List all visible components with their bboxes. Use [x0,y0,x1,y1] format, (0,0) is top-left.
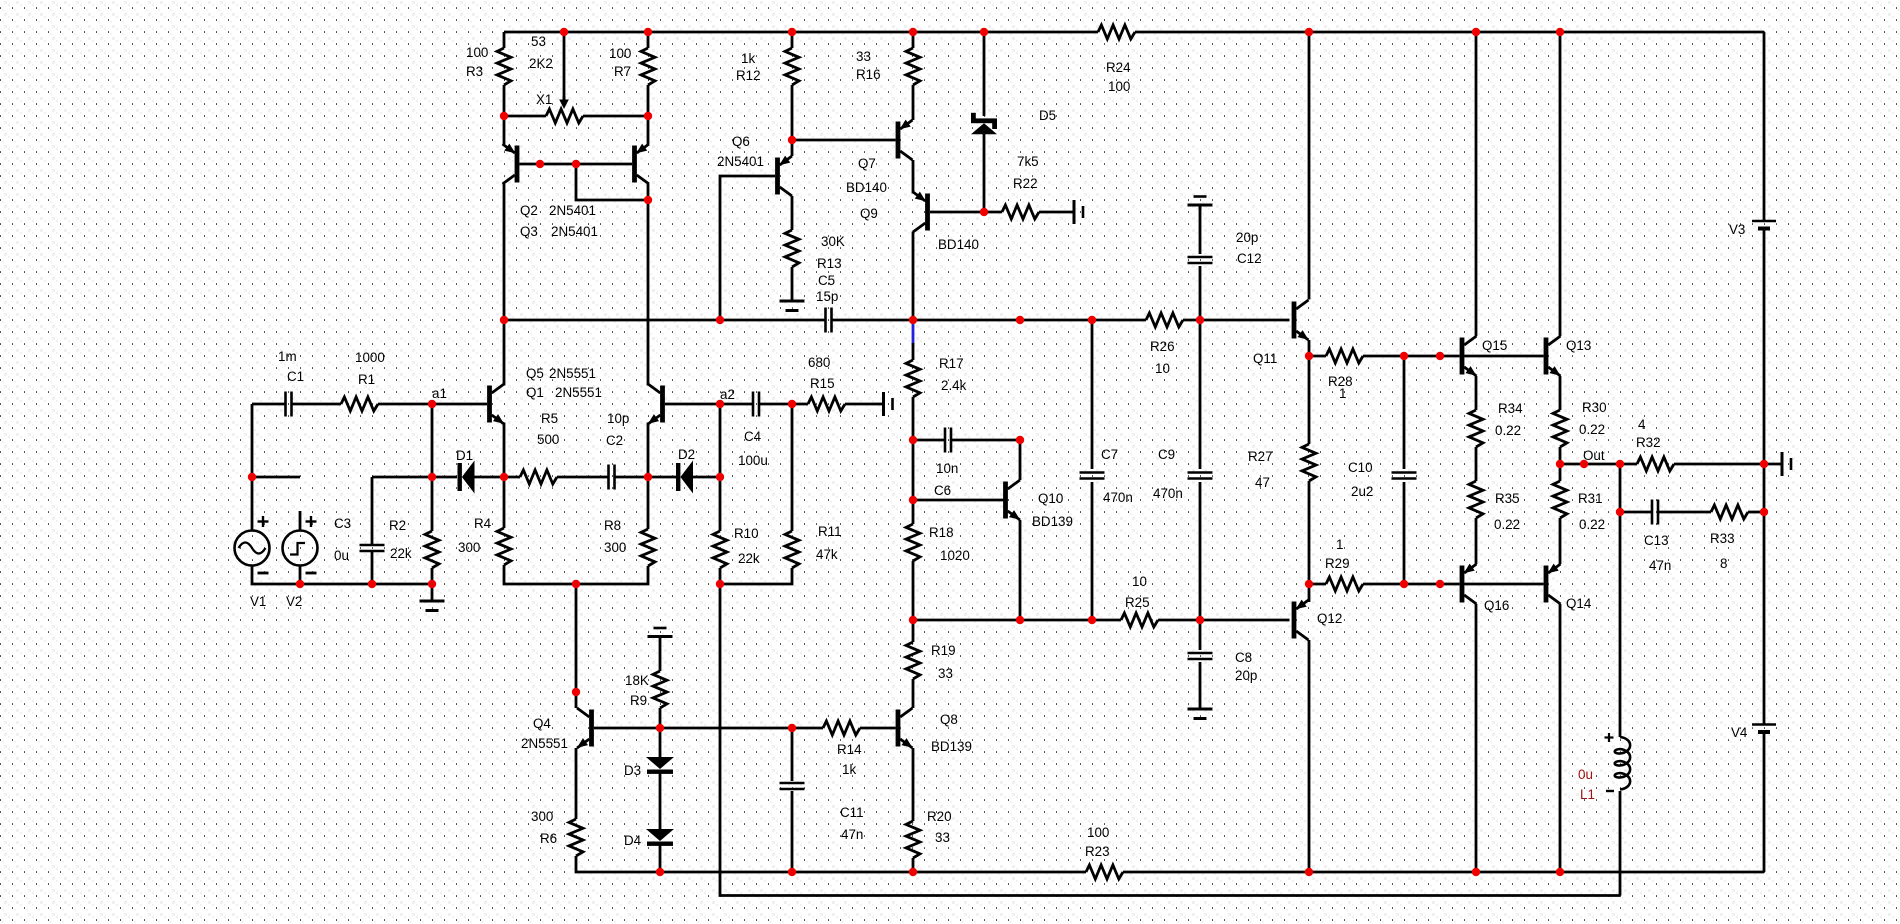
svg-text:2N5401: 2N5401 [549,203,596,218]
svg-text:C2: C2 [606,433,623,448]
label Q3 [520,224,538,239]
svg-text:2N5551: 2N5551 [549,366,596,381]
wire R27 top lead [1308,356,1311,444]
source V1 sine [235,516,270,573]
label Q13 [1566,338,1591,353]
svg-text:20p: 20p [1235,668,1257,683]
wire Q7 collector to Q9 emitter [912,160,915,194]
label Q4 [533,716,551,731]
label C5 [818,273,835,288]
wire Q7 base wire [792,139,896,142]
wire V1 feed [251,477,254,531]
svg-text:C6: C6 [934,483,951,498]
label Q2 [520,203,538,218]
wire R3 top lead [503,32,506,48]
wire C1 to R1 [292,403,341,406]
wire a2 down [719,404,722,477]
label R8 [604,518,621,533]
junction C10 top [1400,352,1408,360]
label 1k [842,762,856,777]
label C8 [1235,650,1252,665]
junction R2 top [428,473,436,481]
label 300 [604,540,626,555]
wire input coupling [252,403,285,406]
wire Q12 emitter lead [1308,584,1311,602]
svg-text:R26: R26 [1150,339,1175,354]
resistor R5 [520,470,557,484]
svg-text:15p: 15p [816,289,838,304]
junction top rail D5 [980,28,988,36]
junction C4-R15 [788,400,796,408]
label 0.22 [1495,423,1521,438]
junction rail Q16 [1472,868,1480,876]
wire Q15 emitter to R34 [1475,376,1478,410]
label 2N5401 [549,203,596,218]
wire R6 bottom corner [576,856,1086,872]
wire R34-R35 link [1475,447,1478,481]
svg-text:500: 500 [537,432,559,447]
wire R11 bottom lead [720,568,792,584]
label 470n [1153,486,1183,501]
svg-text:R32: R32 [1636,435,1661,450]
wire R19 to Q8 collector [912,679,915,708]
label R3 [466,64,483,79]
wire L1 top lead [1619,512,1622,737]
svg-text:D3: D3 [624,763,641,778]
ground below C8 [1188,707,1213,719]
label 100 [609,46,631,61]
junction rail Q14 [1556,868,1564,876]
junction bus C9 [1196,316,1204,324]
ground below R2 [420,584,445,611]
junction Out supply mid [1760,460,1768,468]
wire Q4 collector column [575,584,578,708]
wire R7 top lead [647,32,650,48]
wire D5 anode lead [983,134,986,212]
label 2K2 [529,56,553,71]
svg-text:47k: 47k [816,547,838,562]
wire C3 top corner [372,476,432,479]
label 1000 [355,350,385,365]
svg-text:R13: R13 [817,256,842,271]
label a2 [720,387,735,402]
label V4 [1731,725,1748,740]
label R31 [1578,491,1603,506]
label D3 [624,763,641,778]
junction Zobel top [1616,508,1624,516]
svg-text:V2: V2 [286,594,302,609]
svg-text:C3: C3 [334,516,351,531]
wire R11 stem [791,404,794,531]
wire V4 negative lead [1763,732,1766,872]
svg-text:C9: C9 [1158,447,1175,462]
svg-text:Q5: Q5 [526,366,544,381]
wire node a1b to D1 [432,476,457,479]
svg-text:10: 10 [1132,574,1147,589]
terminal above R9 [648,628,673,637]
svg-text:C7: C7 [1101,447,1118,462]
wire a2 to C4 [720,403,752,406]
junction V1 top [248,473,256,481]
wire Q10 emitter [1019,520,1022,620]
svg-text:R19: R19 [931,643,956,658]
battery V4 [1752,725,1776,733]
zener diode D5 [971,113,997,134]
wire Q15 collector [1475,32,1478,336]
label R7 [614,64,631,79]
wire C11 top lead [791,728,794,781]
junction top rail Q11 [1305,28,1313,36]
resistor R12 [785,48,799,85]
label 100 [1087,825,1109,840]
terminal above C12 [1188,197,1213,206]
label R12 [736,68,761,83]
label R29 [1325,556,1350,571]
label R35 [1495,491,1520,506]
svg-text:Q2: Q2 [520,203,538,218]
wire C13 to R33 [1658,511,1711,514]
wire a1 down [431,404,434,477]
terminal right of R15 [872,392,893,416]
svg-text:300: 300 [604,540,626,555]
diode D1 [458,461,475,494]
resistor R29 [1326,577,1363,591]
resistor R13 [785,230,799,267]
wire R30 to Out [1559,447,1562,464]
junction C3 bottom [368,580,376,588]
svg-text:BD139: BD139 [1032,514,1073,529]
resistor R26 [1146,313,1183,327]
wire R31 to Q14 emitter [1559,518,1562,564]
svg-text:C10: C10 [1348,460,1373,475]
junction tail node [572,580,580,588]
resistor R10 [713,531,727,568]
wire R4 bottom lead [504,565,576,584]
wire R9 top lead [659,646,662,671]
svg-text:22k: 22k [738,551,760,566]
svg-text:33: 33 [938,666,953,681]
wire C10 column [1403,356,1406,469]
svg-text:Q11: Q11 [1253,351,1277,366]
wire R18 bottom lead [912,561,915,620]
wire R35 to Q16 emitter [1475,518,1478,564]
junction Q9 base [980,208,988,216]
svg-text:BD140: BD140 [846,180,887,195]
wire Q13 collector [1559,32,1562,336]
svg-text:100u: 100u [738,453,768,468]
wire V3-V4 link [1763,229,1766,725]
capacitor C6 [945,428,951,453]
label R27 [1248,449,1273,464]
wire R7 bottom lead [647,85,650,116]
label Out [1583,448,1605,463]
junction bus x1020 [1016,316,1024,324]
wire Q3b emitter down [647,423,650,478]
svg-text:20p: 20p [1236,230,1258,245]
wire R12 top lead [791,32,794,48]
wire R26 right lead [1183,319,1200,322]
wire R1 to a1 [378,403,487,406]
wire Q3 base-collector tie jog [576,164,648,200]
capacitor C5 [826,308,832,333]
label 0.22 [1494,517,1520,532]
label 20p [1235,668,1257,683]
wire Q10 base wire [913,499,1004,502]
svg-text:300: 300 [531,809,553,824]
wire C7 top lead [1091,320,1094,469]
svg-text:Q3: Q3 [520,224,538,239]
wire V3 positive lead [1763,32,1766,221]
svg-text:2N5551: 2N5551 [521,736,568,751]
wire X1 wiper stem [563,32,566,101]
resistor R18 [906,524,920,561]
label R26 [1150,339,1175,354]
junction bus Q6 [716,316,724,324]
junction bus Q1 [500,316,508,324]
label R17 [939,356,964,371]
wire D2 to a2 column [693,476,720,479]
wire R15 lead [845,403,872,406]
wire Q13 emitter to R30 [1559,376,1562,410]
wire Q3b collector up [647,384,650,386]
svg-text:R8: R8 [604,518,621,533]
capacitor C7 [1080,473,1105,479]
svg-text:680: 680 [808,355,830,370]
label R11 [818,524,842,539]
wire R3 bottom lead [503,85,506,116]
potentiometer X1 [546,109,583,123]
svg-text:C12: C12 [1237,251,1262,266]
wire C3 stem [371,477,374,544]
resistor R32 [1637,457,1674,471]
label R14 [837,742,862,757]
svg-text:10p: 10p [607,411,629,426]
svg-text:Q10: Q10 [1038,491,1063,506]
svg-text:18K: 18K [625,673,649,688]
svg-text:2N5401: 2N5401 [717,154,764,169]
label V3 [1729,222,1745,237]
wire Q12 collector lead [1308,640,1311,872]
wire Q4 base wire [594,727,660,730]
svg-text:2u2: 2u2 [1351,484,1373,499]
svg-text:Q13: Q13 [1566,338,1591,353]
junction C10 bottom [1400,580,1408,588]
svg-text:R6: R6 [540,831,557,846]
wire Q6 emitter lead [791,140,794,156]
label 100 [1108,79,1130,94]
capacitor C4 [753,392,759,417]
wire compensation bus left [504,319,825,322]
wire Q2 collector to bus [503,184,506,320]
label R6 [540,831,557,846]
wire R4 top lead [503,477,506,528]
label 15p [816,289,838,304]
svg-text:D2: D2 [678,447,695,462]
label 10n [936,461,958,476]
svg-text:R23: R23 [1085,844,1110,859]
label D4 [624,833,642,848]
svg-text:C8: C8 [1235,650,1252,665]
junction Q10 base [909,496,917,504]
label 10p [607,411,629,426]
wire C10 bottom lead [1403,482,1406,584]
resistor R7 [641,48,655,85]
wire R16 bottom lead [912,85,915,120]
label 680 [808,355,830,370]
svg-text:X1: X1 [536,92,552,107]
diode D4 [646,829,674,846]
wire bottom rail right [1123,871,1764,874]
label BD140 [846,180,887,195]
junction R9 bottom [656,724,664,732]
label D1 [456,448,473,463]
wire C6 right lead [951,439,1020,442]
wire base row to R14 [660,727,792,730]
label 20p [1236,230,1258,245]
svg-text:470n: 470n [1153,486,1183,501]
resistor R35 [1469,481,1483,518]
svg-text:R18: R18 [929,525,954,540]
label Q5 [526,366,544,381]
svg-text:BD139: BD139 [931,739,972,754]
wire V2 stub [299,511,302,531]
label L1 value 0u [1578,767,1593,782]
wire D3 top lead [659,728,662,757]
junction X1 left [500,112,508,120]
wire D3-D4 link [659,774,662,830]
wire C8 bottom lead [1199,662,1202,707]
svg-text:R10: R10 [734,526,759,541]
transistor Q7 BD140 [896,120,913,160]
junction C7 bottom [1088,616,1096,624]
label 18K [625,673,649,688]
svg-text:33: 33 [856,49,871,64]
svg-text:R30: R30 [1582,400,1607,415]
label 22k [738,551,760,566]
svg-text:7k5: 7k5 [1017,154,1039,169]
svg-text:a2: a2 [720,387,735,402]
transistor Q3 2N5401 [632,144,649,184]
label 53 [531,34,546,49]
label 2.4k [941,378,967,393]
junction C9 bottom [1196,616,1204,624]
label C13 [1644,533,1669,548]
label 33 [938,666,953,681]
transistor Q10 BD139 [1003,480,1020,520]
label Q1 [526,385,544,400]
wire R28 right lead [1363,355,1460,358]
label C1 [287,369,304,384]
svg-text:R27: R27 [1248,449,1273,464]
svg-text:R31: R31 [1578,491,1603,506]
label R18 [929,525,954,540]
junction Q3 tie [644,196,652,204]
svg-text:300: 300 [458,540,480,555]
label 47k [816,547,838,562]
label C3 [334,516,351,531]
wire R25 to Q12 base [1158,619,1290,622]
resistor R3 [497,48,511,85]
wire C12 to bus [1199,266,1202,320]
label BD139 [1032,514,1073,529]
label 1020 [940,548,970,563]
svg-text:R29: R29 [1325,556,1350,571]
label BD140 [938,237,979,252]
junction Zobel return [1760,508,1768,516]
wire C7 bottom lead [1091,482,1094,620]
svg-text:1: 1 [1336,537,1343,552]
wire D5 cathode lead [983,32,986,116]
label 2u2 [1351,484,1373,499]
svg-text:R24: R24 [1106,60,1131,75]
svg-text:L1: L1 [1580,787,1595,802]
label L1 designator [1580,787,1595,802]
junction Q4 collector [572,688,580,696]
label 300 [458,540,480,555]
label R20 [927,809,952,824]
label Q9 [860,206,878,221]
wire R29 right lead [1363,583,1460,586]
terminal short bar above C12 stem [1199,205,1202,210]
wire C8 top lead [1199,620,1202,650]
svg-text:1k: 1k [842,762,856,777]
wire R19 top lead [912,620,915,642]
transistor Q12 [1292,600,1309,640]
svg-text:D5: D5 [1039,108,1056,123]
svg-text:a1: a1 [432,386,447,401]
label Q10 [1038,491,1063,506]
label R10 [734,526,759,541]
svg-text:2.4k: 2.4k [941,378,967,393]
svg-text:470n: 470n [1103,490,1133,505]
label 2N5401 [717,154,764,169]
wire Q8 emitter to R20 [912,748,915,821]
source V2 pulse [283,516,318,573]
junction top rail R7 [644,28,652,36]
svg-text:Q7: Q7 [858,156,876,171]
svg-text:10: 10 [1155,361,1170,376]
svg-text:C13: C13 [1644,533,1669,548]
wire Q2 emitter lead [503,116,506,144]
junction C6 left [909,436,917,444]
svg-text:R12: R12 [736,68,761,83]
svg-text:Q8: Q8 [940,712,958,727]
svg-text:V4: V4 [1731,725,1748,740]
label 8 [1720,556,1727,571]
svg-text:R20: R20 [927,809,952,824]
label Q14 [1566,596,1592,611]
svg-text:Q6: Q6 [732,134,750,149]
resistor R9 [653,671,667,708]
label 2N5551 [555,385,602,400]
terminal right of R32 [1764,452,1791,476]
svg-text:0.22: 0.22 [1495,423,1521,438]
label Q16 [1484,598,1509,613]
label 30K [821,234,845,249]
label R2 [389,518,406,533]
junction bus Q9 [909,316,917,324]
wire R10 bottom lead [719,568,722,584]
label R24 [1106,60,1131,75]
transistor Q3b 2N5551 [648,384,665,424]
wire R13 bottom lead [791,267,794,299]
svg-text:V1: V1 [250,594,266,609]
svg-text:C11: C11 [840,805,864,820]
label R23 [1085,844,1110,859]
svg-text:R9: R9 [630,693,647,708]
svg-text:V3: V3 [1729,222,1745,237]
label R28 [1328,374,1353,389]
